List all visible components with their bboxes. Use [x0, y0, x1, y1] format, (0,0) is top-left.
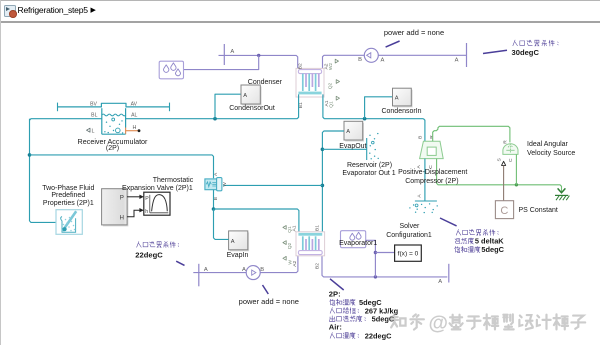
port A label compressor	[416, 164, 422, 168]
svg-text:C: C	[500, 205, 508, 217]
wire main 2P line mid segment	[126, 118, 298, 120]
wire valve B down to junction	[213, 190, 215, 209]
svg-text:h: h	[145, 209, 148, 215]
node junction dot solver/measure	[374, 275, 377, 278]
svg-text:A: A	[438, 279, 442, 285]
port AV label	[131, 101, 138, 107]
label Solver	[349, 223, 469, 231]
label EvapIn	[178, 252, 298, 260]
label Ideal Angular	[527, 141, 568, 149]
node Reservoir MA tick bottom-left (22degC boundary)	[198, 264, 200, 287]
block Condenser heat exchanger body	[296, 68, 324, 97]
wire condenser A1 down to main 2P line right	[323, 94, 324, 118]
wire valve W sensing line	[223, 184, 322, 186]
wire compressor A down to reservoir	[424, 159, 426, 201]
svg-text:BL: BL	[91, 113, 97, 119]
wire junction to reservoir tick	[322, 148, 366, 150]
block CondensorOut sensor	[241, 85, 262, 106]
label Evaporator Out 1	[309, 170, 429, 178]
wire left corner to fluid properties block	[30, 221, 57, 222]
svg-text:R: R	[429, 135, 435, 139]
port B1 label evaporator	[315, 225, 321, 231]
block Positive-Displacement Compressor trapezoid	[420, 141, 444, 158]
node junction to expansion valve line	[28, 153, 32, 157]
svg-text:W: W	[287, 260, 293, 265]
label Predefined	[8, 192, 128, 200]
annotation pointer 2P conditions	[330, 279, 344, 290]
component fan circle 2 (evaporator air)	[246, 266, 260, 280]
port H label	[133, 125, 137, 131]
svg-text:BV: BV	[90, 101, 97, 107]
svg-text:A: A	[230, 49, 234, 55]
component Receiver Accumulator vapor line BV-AV	[58, 103, 170, 107]
svg-text:B: B	[358, 57, 362, 63]
node junction dot top MA line	[257, 54, 260, 57]
label Compressor (2P)	[372, 178, 492, 186]
svg-text:C: C	[508, 158, 514, 162]
block Thermostatic Expansion Valve P-h chart	[144, 192, 170, 215]
block EvapIn sensor	[229, 231, 249, 251]
svg-text:A: A	[346, 129, 350, 135]
label Thermostatic	[113, 177, 233, 185]
component Reservoir 2P Evaporator Out tick	[366, 138, 368, 160]
svg-text:B: B	[417, 136, 423, 139]
block CondensorIn sensor	[393, 88, 413, 107]
wire junction down to EvapIn sensor	[214, 209, 229, 239]
svg-text:22degC: 22degC	[135, 250, 163, 259]
port C label compressor	[428, 165, 434, 169]
node A label bottom-left tick	[204, 267, 208, 273]
wire up to CondensorIn sensor A	[365, 97, 393, 119]
port A2 W labels and arrow evaporator bottom left	[292, 261, 298, 267]
wire velocity source C down to ground line	[515, 154, 517, 184]
wire up to CondensorOut sensor A	[215, 94, 241, 119]
label Configuration1	[349, 232, 469, 240]
node A label top-left tick	[230, 49, 234, 55]
signal wire H to valve block	[127, 208, 144, 217]
annotation text 2P conditions block (mixed)	[329, 289, 341, 298]
svg-text:Q2: Q2	[328, 82, 334, 89]
port B2 label condenser	[297, 63, 303, 69]
port S label velocity source	[497, 157, 503, 161]
node A label right tick	[455, 58, 459, 64]
wire junction up to solver and Evaporator1 sensor	[366, 240, 376, 277]
label power add = none (top)	[354, 29, 474, 38]
node fan A label	[380, 58, 384, 64]
label EvapOut	[293, 143, 413, 151]
wire evaporator B2 to bottom MA line	[322, 256, 447, 277]
wire tick to fan2	[193, 272, 246, 274]
label Condenser	[205, 79, 325, 87]
svg-text:A: A	[242, 267, 246, 273]
label CondensorOut	[192, 105, 312, 113]
wire reservoir stub to condenser B2	[219, 55, 298, 68]
component Receiver Accumulator tank	[102, 108, 126, 134]
svg-text:H: H	[120, 215, 124, 222]
port B label compressor	[417, 136, 423, 139]
label power add = none (bottom)	[209, 298, 329, 307]
node junction to Reservoir 2P evaporator out	[321, 148, 325, 152]
tank bubbles	[104, 118, 123, 133]
wire main 2P line left segment	[30, 119, 102, 121]
evaporator air header bottom	[298, 251, 322, 255]
wire main line corner down to compressor B	[423, 119, 425, 142]
node junction to CondensorIn sensor	[363, 117, 367, 121]
svg-text:30degC: 30degC	[512, 48, 540, 57]
node A label bottom-right tick	[438, 279, 442, 285]
annotation pointer to 30degC boundary	[483, 50, 507, 53]
svg-text:S: S	[497, 157, 503, 161]
node A label compressor inlet line	[416, 194, 422, 198]
wire EvapOut sensor to vertical net	[322, 131, 344, 232]
signal wire P to valve block	[127, 195, 144, 199]
wire fan2 B to evaporator A2	[260, 256, 298, 273]
svg-text:B2: B2	[297, 63, 303, 69]
svg-text:A: A	[380, 58, 384, 64]
port Q2 label and arrow evaporator left	[287, 242, 293, 249]
label Expansion Valve (2P)1	[97, 185, 217, 193]
toolbar title Refrigeration_step5	[18, 6, 88, 16]
node junction to valve W sensing line	[321, 184, 325, 188]
port B label valve	[213, 197, 219, 200]
port W label valve	[222, 182, 227, 187]
node junction valve outlet	[212, 207, 216, 211]
toolbar model icon	[4, 5, 16, 17]
port A label valve	[213, 172, 219, 176]
wire compressor C to ground line	[437, 159, 562, 192]
svg-text:AV: AV	[131, 101, 138, 107]
wire left vertical drop	[29, 119, 31, 221]
wire condenser A2 up to fan B	[323, 55, 365, 68]
toolbar arrow	[91, 7, 96, 15]
svg-text:A: A	[395, 95, 399, 101]
annotation text compressor inlet boundary (CJK 3 lines)	[456, 229, 498, 235]
svg-text:Q1: Q1	[329, 101, 335, 108]
port R label velocity source	[503, 140, 509, 144]
svg-text:2P:: 2P:	[329, 289, 341, 298]
node Reservoir MA tick bottom-right	[448, 264, 450, 283]
component Thermostatic Expansion Valve icon	[205, 178, 222, 191]
label PS Constant	[519, 207, 558, 215]
svg-text:L: L	[92, 128, 95, 134]
port H thermal connection	[126, 129, 141, 132]
condenser 2P bar bottom	[298, 92, 321, 95]
annotation text inlet boundary 22degC (CJK)	[137, 242, 179, 248]
port B2 label evaporator	[315, 263, 321, 269]
component Reservoir 2P compressor inlet tick	[415, 200, 437, 202]
svg-text:B2: B2	[315, 263, 321, 269]
svg-text:H: H	[133, 125, 137, 131]
annotation pointer compressor inlet boundary	[440, 218, 457, 226]
svg-text:R: R	[503, 140, 509, 144]
window left edge	[0, 0, 1, 345]
node fan2 B label	[260, 267, 264, 273]
label Positive-Displacement	[373, 169, 493, 177]
wire condenser B1 down to main 2P line	[297, 94, 298, 118]
wire main 2P line right segment	[324, 118, 423, 120]
label Receiver Accumulator	[53, 138, 173, 146]
label Velocity Source	[527, 150, 575, 158]
port C label velocity source	[508, 158, 514, 162]
port B1 label condenser	[298, 102, 304, 108]
svg-text:@: @	[429, 313, 449, 335]
evaporator 2P bar top	[298, 233, 322, 236]
node Reservoir MA inlet tick A (30degC boundary)	[223, 44, 225, 65]
svg-text:f(x) = 0: f(x) = 0	[398, 251, 419, 258]
evaporator tubes	[303, 236, 319, 250]
port AL label	[131, 113, 137, 119]
block PS Constant	[495, 201, 513, 219]
port BL label	[91, 113, 97, 119]
port L level output arrow	[87, 128, 91, 132]
wire junction to evaporator A1	[214, 209, 299, 232]
port A1 Q1 labels and arrow condenser bottom right	[324, 100, 330, 106]
node BV-AV end ticks	[58, 103, 170, 112]
svg-text:W2: W2	[328, 63, 334, 71]
svg-text:Air:: Air:	[329, 323, 342, 332]
label Reservoir (2P)	[310, 162, 430, 170]
block Two-Phase Fluid Predefined Properties icon	[56, 210, 82, 235]
node junction solver branch	[374, 251, 377, 254]
wire compressor R to velocity source R	[433, 126, 510, 142]
block P-H property lookup	[102, 189, 129, 227]
condenser air header top	[298, 70, 321, 74]
condenser tubes	[303, 74, 319, 91]
component fan circle (condenser air, power add = none)	[364, 48, 378, 62]
svg-text:5degC: 5degC	[481, 245, 504, 254]
block Evaporator1 moisture measurement	[341, 231, 366, 248]
node fan B label	[358, 57, 362, 63]
wire to solver configuration block	[375, 252, 394, 254]
annotation pointer 22degC boundary	[176, 261, 184, 265]
wire junction down-left to moisture measurement block	[184, 55, 259, 69]
node fan2 A label	[242, 267, 246, 273]
annotation pointer power add none top	[386, 41, 400, 47]
label Two-Phase Fluid	[8, 185, 128, 193]
svg-text:B1: B1	[315, 225, 321, 231]
reservoir 2P inlet vapor dots	[409, 203, 438, 213]
node Reservoir MA outlet tick (right)	[466, 43, 468, 67]
label Properties (2P)1	[8, 200, 128, 208]
svg-text:Q2: Q2	[287, 242, 293, 249]
svg-text:AL: AL	[131, 113, 137, 119]
svg-text:A: A	[416, 194, 422, 198]
block EvapOut sensor	[344, 121, 364, 141]
svg-text:22degC: 22degC	[365, 331, 392, 340]
label (2P)	[53, 145, 173, 153]
port A1 Q1 labels and arrow evaporator top left	[292, 225, 298, 231]
wire PS constant to S port	[503, 165, 505, 200]
node junction velocity source C	[515, 183, 518, 186]
block Solver Configuration f(x)=0	[395, 245, 422, 261]
label Evaporator1	[298, 240, 418, 248]
wire junction right to valve A	[30, 155, 214, 178]
node junction to CondensorOut sensor	[213, 117, 217, 121]
signal input arrow S	[502, 161, 506, 165]
port Q2 label and arrow condenser right	[328, 82, 334, 89]
svg-text:A: A	[455, 58, 459, 64]
port BV label	[90, 101, 97, 107]
ground mechanical rotational reference	[555, 188, 569, 200]
port R label compressor	[429, 135, 435, 139]
annotation text inlet boundary 30degC (CJK)	[513, 40, 558, 46]
port A2 W2 labels and arrow condenser top right	[324, 63, 330, 69]
annotation pointer power add none bottom	[263, 285, 269, 294]
block moisture measurement (droplets)	[159, 61, 183, 79]
svg-text:A: A	[231, 239, 235, 245]
wire fan A to right reservoir tick	[378, 54, 466, 56]
svg-text:Q1: Q1	[287, 226, 293, 233]
watermark zhihu (CJK drawn)	[391, 314, 424, 329]
toolbar breadcrumb bar	[0, 0, 600, 23]
block Ideal Angular Velocity Source	[503, 144, 518, 155]
reservoir 2P vapor dots	[369, 133, 379, 160]
svg-text:P: P	[145, 196, 149, 202]
block Evaporator heat exchanger body	[296, 232, 325, 256]
label CondensorIn	[342, 108, 462, 116]
svg-text:A: A	[243, 93, 247, 99]
